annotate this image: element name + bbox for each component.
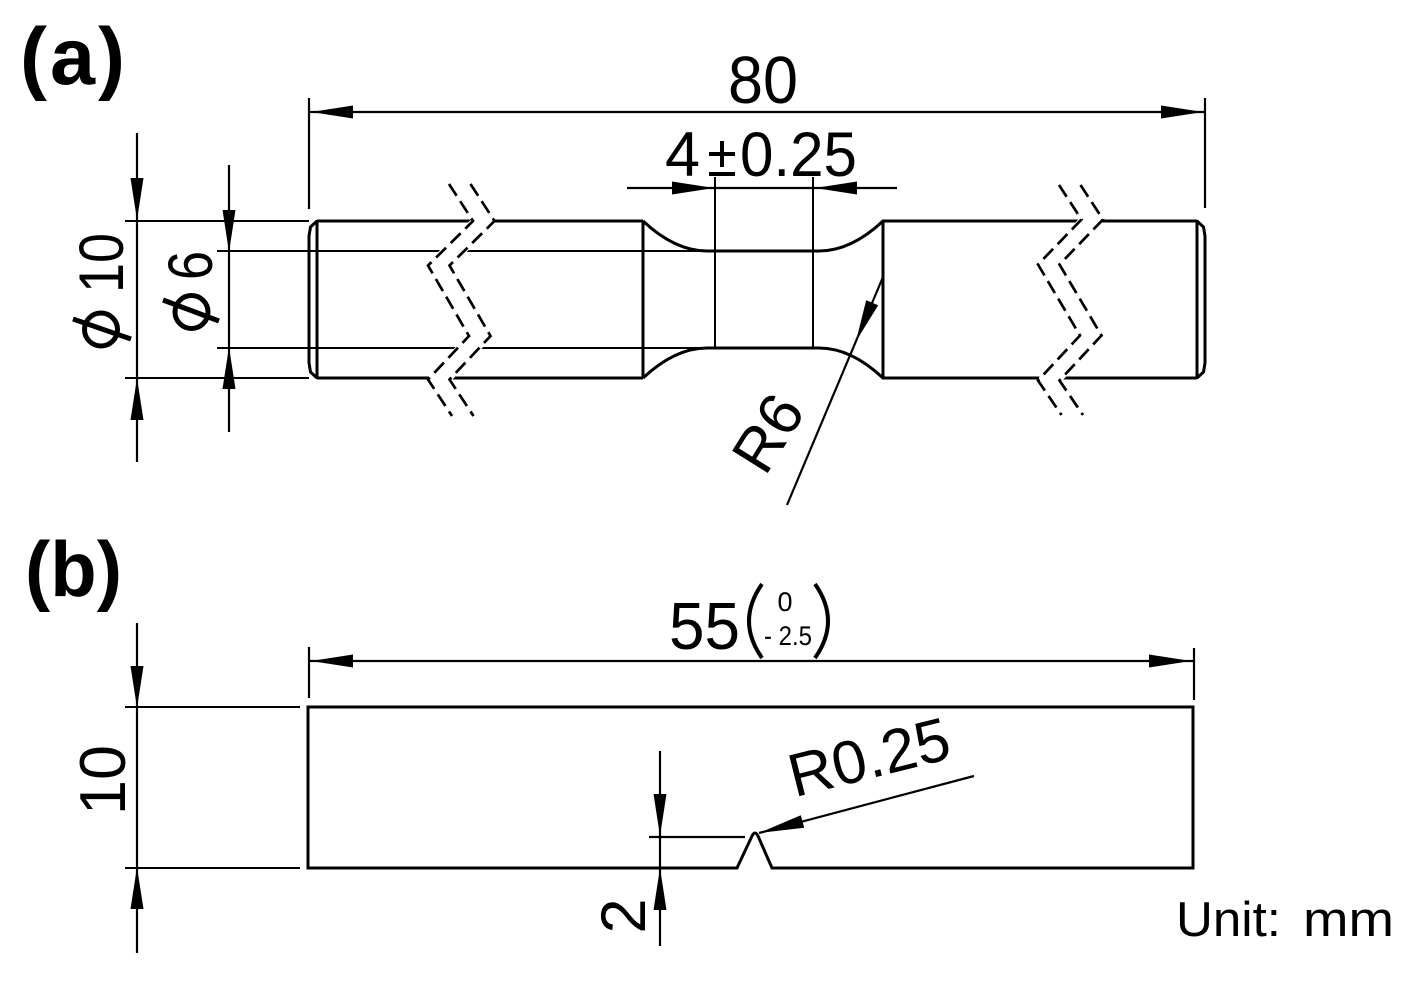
gauge bottom profile with fillets R6	[643, 348, 883, 378]
break corridor right (white)	[1049, 183, 1093, 417]
svg-text:Unit:: Unit:	[1176, 893, 1281, 947]
tolerance upper 0	[777, 587, 792, 617]
dim 80 dimension line	[309, 111, 1205, 113]
dim 55 arrow right	[1149, 655, 1191, 668]
svg-text:0: 0	[777, 587, 792, 617]
specimen left end cap	[309, 221, 317, 378]
specimen rectangle with V-notch	[308, 707, 1193, 868]
dim 2 arrow top	[654, 794, 667, 836]
specimen bottom edge left grip	[317, 377, 643, 380]
svg-text:80: 80	[728, 43, 798, 118]
specimen left end inner edge	[316, 220, 319, 379]
dim dia10 extension line top	[125, 220, 309, 222]
dim dia6 label	[156, 251, 226, 329]
specimen right end inner edge	[1196, 220, 1199, 379]
R0.25 text	[781, 704, 957, 810]
svg-text:4: 4	[665, 120, 700, 190]
dim 4 extension line right	[812, 177, 814, 348]
left shoulder edge	[642, 221, 645, 378]
right shoulder edge	[882, 221, 885, 378]
tolerance open paren	[749, 584, 762, 658]
dim 10 arrow bottom	[131, 867, 144, 909]
plus-minus symbol horizontal stroke	[709, 152, 735, 156]
gauge top profile with fillets R6	[643, 221, 883, 251]
R6 leader arrow	[856, 300, 878, 341]
plus-minus symbol vertical stroke	[720, 141, 724, 167]
dim 10 extension line bottom	[125, 867, 300, 869]
tolerance close paren	[815, 584, 828, 658]
dim 10 dimension line	[136, 623, 138, 953]
dim 10 extension line top	[125, 706, 300, 708]
dim 80 extension line right	[1204, 98, 1206, 208]
dim 2 apex tick line	[649, 836, 745, 838]
dim dia6 dimension line	[228, 165, 230, 432]
dim 80 arrow right	[1161, 106, 1203, 119]
dim 2 text	[589, 898, 659, 933]
tolerance lower -2.5	[764, 621, 812, 651]
R6 text	[719, 382, 818, 484]
dim 4 extension line left	[714, 177, 716, 348]
svg-text:mm: mm	[1303, 893, 1394, 947]
svg-text:10: 10	[66, 745, 139, 815]
svg-text:55: 55	[669, 589, 740, 664]
dim 55 dimension line	[309, 660, 1193, 662]
dim 4 dimension line	[627, 187, 897, 189]
svg-text:10: 10	[67, 233, 137, 293]
dim dia6 arrow top	[223, 210, 236, 252]
svg-text:- 2.5: - 2.5	[764, 621, 812, 651]
R6 leader line	[787, 277, 883, 505]
specimen bottom edge right grip	[882, 377, 1197, 380]
dim 55 arrow left	[311, 655, 353, 668]
plus-minus symbol lower bar	[709, 172, 735, 176]
svg-text:6: 6	[156, 251, 226, 280]
dim dia6 extension line bottom	[217, 347, 707, 349]
dim 4 arrow right	[815, 182, 857, 195]
dim 80 arrow left	[311, 106, 353, 119]
dim 10 text	[66, 745, 139, 815]
dim 80 extension line left	[308, 98, 310, 209]
break zigzag left line 2	[450, 184, 495, 416]
dim 4 arrow left	[672, 182, 714, 195]
dim dia10 label	[67, 233, 137, 346]
R0.25 leader arrow	[759, 815, 804, 833]
dim dia10 arrow bottom	[131, 378, 144, 420]
break zigzag left line 1	[428, 184, 473, 416]
dim dia6 extension line top	[217, 250, 707, 252]
svg-text:(b): (b)	[25, 525, 122, 613]
R0.25 leader line	[759, 776, 974, 833]
dim dia10 arrow top	[131, 178, 144, 220]
break zigzag right line 1	[1038, 185, 1082, 415]
dim 10 arrow top	[131, 666, 144, 708]
svg-text:(a): (a)	[20, 12, 128, 102]
dim 2 arrow bottom	[654, 868, 667, 910]
break zigzag right line 2	[1060, 185, 1104, 415]
specimen right end cap	[1197, 221, 1205, 378]
break corridor left (white)	[439, 182, 484, 418]
dim 2 dimension line	[659, 751, 661, 946]
dim dia6 arrow bottom	[223, 347, 236, 389]
svg-text:0.25: 0.25	[740, 120, 857, 190]
dim 55 extension line right	[1193, 648, 1195, 700]
specimen top edge right grip	[882, 220, 1197, 223]
dim dia10 extension line bottom	[125, 377, 309, 379]
specimen top edge left grip	[317, 220, 643, 223]
dim dia10 dimension line	[136, 133, 138, 462]
dim 55 extension line left	[308, 647, 310, 698]
svg-text:2: 2	[589, 898, 659, 933]
